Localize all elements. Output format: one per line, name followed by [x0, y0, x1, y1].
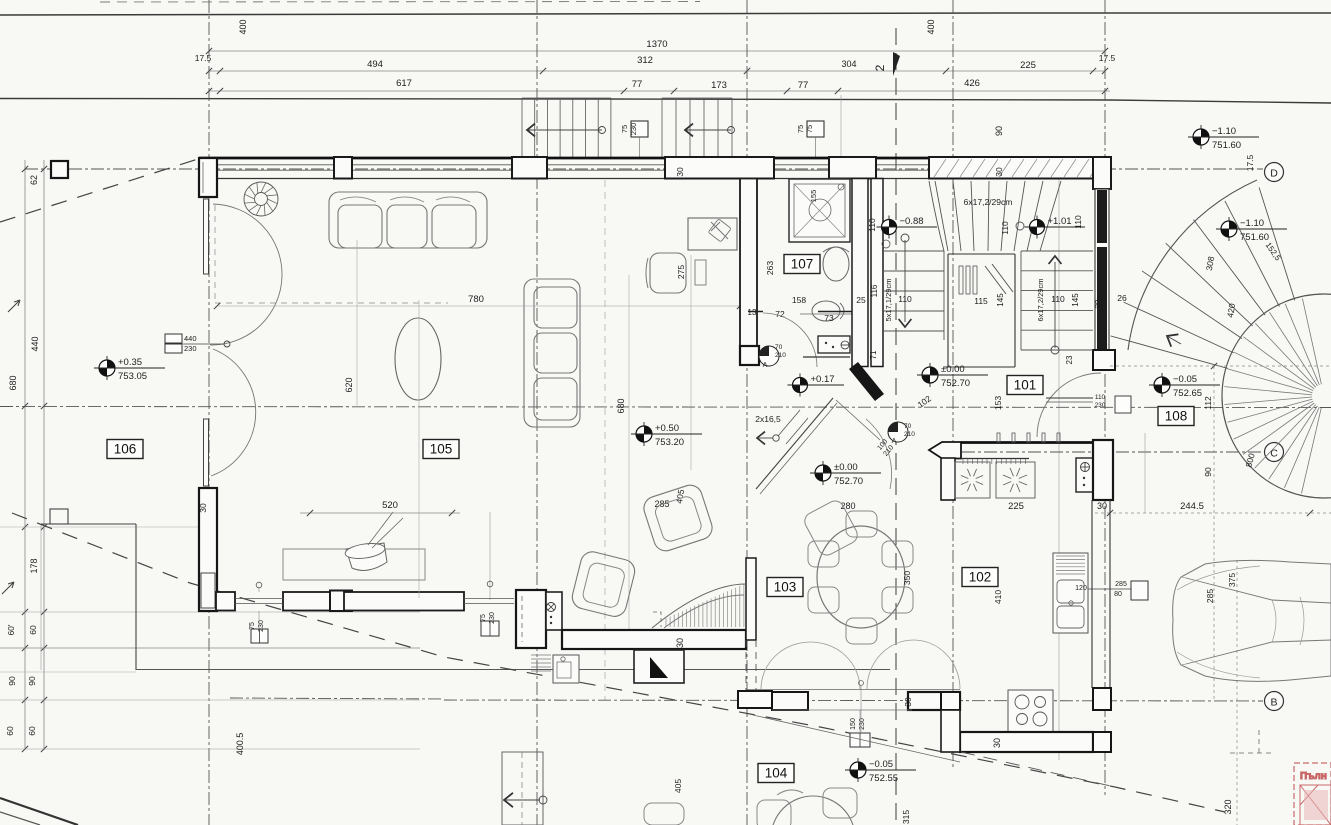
svg-text:75: 75: [480, 614, 487, 622]
dark corner strokes bottom-left: [0, 798, 78, 825]
svg-text:405: 405: [673, 779, 683, 793]
grid axis vertical x747: [746, 0, 748, 825]
spiral fan arrow: [1167, 334, 1178, 346]
svg-text:103: 103: [774, 580, 797, 595]
spiral stair big circle: [1222, 294, 1331, 498]
svg-text:30: 30: [1097, 501, 1107, 511]
svg-text:230: 230: [489, 612, 496, 624]
svg-text:752.70: 752.70: [834, 476, 863, 487]
left dim tick: [22, 697, 28, 703]
svg-text:400.5: 400.5: [235, 733, 245, 756]
bottom wall glazing b: [464, 598, 514, 600]
window 110/230 east wall: [1115, 396, 1131, 413]
top wall block 665: [665, 157, 774, 179]
svg-text:145: 145: [996, 293, 1005, 307]
svg-text:23: 23: [1065, 355, 1074, 364]
room label 107: [784, 255, 820, 274]
svg-text:210: 210: [904, 431, 915, 438]
elevation +0.17: [799, 374, 801, 397]
svg-text:−0.88: −0.88: [900, 216, 924, 227]
svg-text:90: 90: [994, 126, 1004, 136]
dim line y513 right: [1095, 512, 1331, 514]
svg-text:320: 320: [1223, 799, 1233, 814]
wall face line y710: [772, 709, 912, 711]
kitchen pass-through wall arrow end: [929, 442, 961, 459]
desk chair: [650, 253, 686, 293]
svg-text:−0.05: −0.05: [1173, 374, 1197, 385]
section cut line 2 vertical: [895, 28, 897, 825]
svg-text:30: 30: [994, 167, 1004, 177]
svg-text:440: 440: [30, 336, 40, 351]
left dim tick: [22, 645, 28, 651]
svg-text:B: B: [1270, 697, 1277, 709]
svg-text:6x17,2/29cm: 6x17,2/29cm: [1036, 279, 1045, 322]
section marker 2 flag: [893, 52, 900, 76]
svg-text:30: 30: [903, 697, 913, 707]
svg-text:304: 304: [841, 59, 856, 69]
svg-text:104: 104: [765, 766, 788, 781]
dimension line 1370: [209, 50, 1105, 52]
grid axis vertical x1105: [1104, 0, 1106, 795]
svg-text:150: 150: [850, 718, 857, 730]
svg-text:+0.35: +0.35: [118, 357, 142, 368]
svg-text:30: 30: [675, 167, 685, 177]
construction line x605: [604, 180, 606, 700]
dining south wall pillar a: [738, 691, 772, 708]
svg-text:145: 145: [1071, 293, 1080, 307]
elevation -0.88: [888, 216, 890, 239]
svg-text:112: 112: [1203, 396, 1213, 410]
svg-text:116: 116: [870, 284, 879, 297]
svg-text:73: 73: [824, 313, 834, 323]
bottom-left horizontal guide y700: [0, 699, 420, 701]
door marker circle B 70/210: [759, 346, 779, 366]
washbasin 107: [823, 247, 849, 281]
stair left flight arrow: [904, 240, 906, 322]
circle node left flight: [882, 240, 890, 248]
left dimension line x44: [43, 160, 45, 750]
french door arc right: [867, 640, 960, 689]
site boundary line top: [0, 13, 1331, 15]
svg-text:753.20: 753.20: [655, 437, 684, 448]
planter pot: [346, 543, 387, 570]
svg-text:±0.00: ±0.00: [941, 364, 965, 375]
kitchen sink small + hatch left of fireplace: [531, 654, 551, 656]
svg-text:110: 110: [1000, 221, 1010, 235]
terrace edge bottom: [136, 669, 890, 671]
svg-text:75: 75: [805, 125, 814, 133]
elevation +1.01: [1036, 216, 1038, 239]
svg-text:752.65: 752.65: [1173, 388, 1202, 399]
kitchen right wall double: [1091, 500, 1093, 688]
wall 107 bottom y312: [748, 311, 763, 313]
kitchen sink unit right wall: [1053, 553, 1088, 633]
svg-text:230: 230: [629, 123, 638, 136]
chair bottom right of 105: [802, 498, 861, 558]
svg-text:−0.05: −0.05: [869, 759, 893, 770]
chimney outline bottom: [502, 752, 543, 825]
corner pillar living room SW: [516, 590, 546, 648]
left datum column square: [51, 161, 68, 178]
svg-text:494: 494: [367, 59, 383, 70]
svg-text:178: 178: [29, 558, 39, 573]
terrace bump square: [50, 509, 68, 524]
grid axis vertical x537: [536, 0, 538, 825]
car hood lines: [1177, 566, 1260, 678]
washer square 2: [996, 462, 1035, 498]
spiral outer fan arc: [1128, 180, 1257, 350]
svg-text:+0.17: +0.17: [811, 374, 835, 385]
svg-text:Пълн: Пълн: [1300, 771, 1327, 782]
svg-text:752.55: 752.55: [869, 773, 898, 784]
svg-text:17.5: 17.5: [1245, 154, 1255, 171]
thin diagonal below dining wall: [753, 715, 960, 762]
window axis marker square A: [631, 121, 648, 137]
door swing arc lower: [211, 349, 256, 476]
site boundary dashes very top: [100, 1, 700, 4]
bottom wall segment b: [344, 592, 464, 611]
svg-text:225: 225: [1008, 501, 1024, 512]
stair landing walls: [944, 254, 1015, 367]
svg-text:263: 263: [765, 261, 775, 275]
datum line C y452: [940, 451, 1263, 453]
terrace edge top: [41, 523, 136, 525]
svg-text:275: 275: [676, 265, 686, 279]
left wall lower pillar inner: [201, 573, 215, 608]
oval coffee table: [395, 318, 441, 400]
exterior stair flight 1 treads: [521, 98, 523, 158]
svg-text:+1.01: +1.01: [1048, 216, 1072, 227]
top-right wall corner pillar: [1093, 157, 1111, 189]
small circle node: [1016, 222, 1024, 230]
dim line y366 right: [1110, 365, 1331, 367]
hall steps 2x16.5: [778, 410, 800, 436]
attic dashed outline: [214, 205, 216, 303]
svg-text:1370: 1370: [646, 39, 667, 50]
long dashed overhang diagonal: [12, 513, 1225, 812]
svg-text:77: 77: [632, 79, 643, 90]
svg-text:120: 120: [1075, 585, 1087, 592]
svg-text:C: C: [1270, 448, 1278, 460]
svg-text:115: 115: [974, 296, 988, 306]
room label 104: [758, 764, 794, 783]
svg-text:80: 80: [1114, 591, 1122, 598]
construction line x841: [840, 95, 842, 160]
svg-text:75: 75: [796, 125, 805, 133]
left dim tick: [22, 609, 28, 615]
elevation 0.00 dining: [822, 461, 824, 485]
svg-text:77: 77: [798, 80, 809, 91]
svg-text:17.5: 17.5: [1099, 53, 1116, 63]
room label 108: [1158, 407, 1194, 426]
grid axis vertical x953: [952, 0, 954, 770]
svg-text:107: 107: [791, 257, 814, 272]
elevation -0.05 room104: [857, 758, 859, 782]
dashed diagonal top-left: [0, 159, 198, 222]
dimension line 617-77-173-77-426: [209, 90, 1110, 92]
wall x740-757 vertical: [740, 179, 757, 347]
curved stair dashed step: [653, 612, 661, 627]
svg-text:108: 108: [1165, 409, 1188, 424]
left wall lower pillar: [199, 488, 217, 611]
dim 73: [800, 313, 852, 315]
french door arc left: [761, 642, 860, 689]
svg-text:2x16,5: 2x16,5: [755, 414, 781, 424]
stairwell east wall band: [1095, 189, 1109, 367]
tiny north arrow lower-left edge: [2, 582, 14, 594]
vertical dim line x1237: [1236, 560, 1238, 825]
datum line D y169: [25, 168, 1263, 170]
svg-text:751.60: 751.60: [1240, 232, 1269, 243]
svg-text:A: A: [763, 362, 768, 369]
window axis sq 75/230 b: [481, 621, 499, 636]
door arc stair to hall: [1037, 373, 1101, 437]
top wall outer edge: [199, 157, 1110, 160]
stair right flight arrow: [1054, 262, 1056, 348]
grid bubble C: [1265, 443, 1284, 462]
door swing arc upper: [210, 204, 282, 345]
svg-text:−1.10: −1.10: [1212, 126, 1236, 137]
svg-text:400: 400: [926, 19, 936, 34]
cabinet in WC: [818, 336, 850, 353]
counter tick hatch: [963, 459, 1025, 464]
kitchen corner vertical leg: [941, 710, 960, 752]
dimension 780: [208, 593, 210, 595]
svg-text:350: 350: [902, 571, 912, 585]
sofa vertical 3-seat: [524, 279, 580, 427]
axis line to 0 marker: [183, 343, 224, 345]
svg-text:153: 153: [993, 396, 1003, 410]
kitchen counter wall top: [961, 441, 1095, 444]
svg-text:285: 285: [1115, 581, 1127, 588]
black chamfer wall corner: [849, 362, 884, 401]
sofa horizontal 3-seat: [329, 192, 487, 248]
dimension line 494-312-304-225: [209, 70, 1105, 72]
svg-text:±0.00: ±0.00: [834, 462, 858, 473]
svg-text:60: 60: [28, 625, 38, 635]
kitchen corner pillar b: [1093, 688, 1111, 710]
svg-text:520: 520: [382, 500, 398, 511]
datum line B left part: [230, 698, 444, 699]
left dimension line x25: [24, 160, 26, 750]
interior stair left flight: [883, 251, 944, 340]
tiny north arrow upper-left edge: [8, 300, 20, 312]
svg-text:110: 110: [867, 218, 877, 232]
tall cabinet at fireplace wall: [546, 592, 562, 630]
svg-text:30: 30: [992, 738, 1002, 748]
hall step arrow: [757, 432, 765, 445]
terrace edge right: [135, 524, 137, 670]
sideboard bottom wall: [283, 549, 425, 580]
svg-text:315: 315: [901, 810, 911, 824]
svg-text:90: 90: [1203, 467, 1213, 477]
svg-text:60': 60': [6, 624, 16, 635]
svg-text:2: 2: [873, 64, 887, 71]
left wall top pillar: [199, 158, 217, 197]
left dim tick: [22, 746, 28, 752]
kitchen left wall segment: [941, 458, 955, 500]
stair window black bar 1: [1097, 190, 1107, 243]
landing ramp bars: [959, 266, 963, 294]
svg-text:312: 312: [637, 55, 653, 66]
svg-text:106: 106: [114, 442, 137, 457]
arrow bottom left: [504, 793, 513, 807]
WC door arc: [763, 313, 817, 367]
svg-text:440: 440: [184, 334, 197, 343]
car roof lines: [1272, 597, 1304, 645]
exterior stair flight 1 arrow: [527, 129, 602, 131]
shower tray: [789, 179, 850, 242]
door leaf lower: [204, 419, 209, 486]
svg-text:60: 60: [27, 726, 37, 736]
stairwell east corner pillar mid: [1093, 350, 1115, 370]
svg-text:155: 155: [809, 190, 818, 203]
chairs 104: [757, 800, 791, 825]
desk lamp: [711, 222, 728, 239]
top wall block 512: [512, 157, 547, 179]
svg-text:230: 230: [1095, 402, 1106, 409]
exterior stair flight1 top edge: [522, 97, 611, 99]
svg-text:173: 173: [711, 80, 727, 91]
construction line x419: [418, 300, 420, 598]
window axis sq 75/230 a: [251, 629, 268, 643]
chair far left 104: [644, 803, 684, 825]
svg-text:225: 225: [1020, 60, 1036, 71]
top wall glazing lines: [217, 164, 334, 166]
top wall block 334: [334, 157, 352, 179]
leader 285/80: [1088, 588, 1131, 590]
grid bubble D: [1265, 163, 1284, 182]
grid axis vertical x209: [208, 0, 210, 825]
svg-text:−1.10: −1.10: [1240, 218, 1264, 229]
fan plant symbol: [244, 182, 278, 216]
svg-text:617: 617: [396, 78, 412, 89]
faint vertical x1145: [1144, 433, 1146, 513]
door marker circle A: [888, 422, 908, 442]
fireplace wall horizontal: [562, 630, 746, 649]
bottom wall segment a2: [283, 592, 344, 611]
elevation -1.10 a: [1200, 125, 1202, 149]
svg-text:410: 410: [993, 590, 1003, 604]
kitchen bottom wall: [960, 732, 1093, 752]
window marker 150/230: [850, 733, 870, 747]
construction line x691: [690, 255, 692, 470]
svg-text:70: 70: [775, 344, 783, 351]
construction line x357: [356, 240, 358, 407]
datum line B y701: [444, 700, 1263, 701]
washer square 1: [955, 462, 990, 498]
door arc hall to dining: [866, 419, 892, 489]
svg-text:400: 400: [238, 19, 248, 34]
svg-text:30: 30: [198, 503, 208, 513]
bottom-left horizontal guide y672: [0, 671, 136, 673]
svg-text:A: A: [892, 438, 897, 445]
room label 106: [107, 440, 143, 459]
exterior stair flight2 top edge: [662, 97, 732, 99]
elevation marker +0.50: [643, 422, 645, 446]
red stamp bottom right: [1294, 763, 1331, 825]
svg-text:60: 60: [5, 726, 15, 736]
room label 103: [767, 578, 803, 597]
svg-text:230: 230: [184, 344, 197, 353]
construction line x629: [628, 275, 630, 630]
svg-text:753.05: 753.05: [118, 371, 147, 382]
svg-text:71: 71: [869, 350, 878, 359]
svg-text:285: 285: [1205, 589, 1215, 603]
svg-text:680: 680: [616, 398, 626, 413]
stairwell east wall upper pillar: [1093, 188, 1111, 190]
stairwell west wall: [871, 179, 883, 367]
dashed cross x1259: [1258, 730, 1260, 757]
site property line y99: [0, 99, 1331, 104]
svg-text:30: 30: [675, 638, 685, 648]
svg-text:110: 110: [1051, 294, 1065, 304]
kitchen bottom-left corner wall: [908, 692, 960, 710]
construction line x1059: [1058, 160, 1060, 760]
top wall block 829: [829, 157, 876, 179]
svg-text:680: 680: [8, 375, 18, 390]
spiral stair inner spokes: [1224, 298, 1321, 493]
svg-text:25: 25: [856, 295, 866, 305]
elevation -1.10 b: [1228, 217, 1230, 241]
svg-text:105: 105: [430, 442, 453, 457]
left dim tick: [22, 166, 28, 172]
svg-text:101: 101: [1014, 378, 1037, 393]
armchair near fireplace: [570, 549, 637, 619]
armchair lower center: [641, 482, 715, 554]
svg-text:375: 375: [1227, 573, 1237, 587]
construction line x490: [489, 512, 491, 600]
room label 105: [423, 440, 459, 459]
stair winder fan: [929, 181, 1061, 251]
svg-text:75: 75: [620, 125, 629, 133]
vertical dim line x1214: [1213, 366, 1215, 700]
interior stair right flight: [1021, 251, 1093, 350]
bottom wall segment a: [216, 592, 235, 611]
curved stair living-dining hatch: [666, 584, 744, 627]
svg-text:426: 426: [964, 78, 980, 89]
svg-text:780: 780: [468, 294, 484, 305]
stairwell top wall block 929-1105 with hatch: [929, 157, 1105, 179]
elevation marker +0.35: [106, 356, 108, 380]
WC east wall: [852, 179, 868, 367]
left dim tick: [22, 403, 28, 409]
round table 104: [771, 796, 855, 825]
svg-text:75: 75: [249, 622, 256, 630]
hall diagonal inner line: [836, 400, 880, 440]
wall face line y689: [746, 689, 960, 691]
bottom-left horizontal guide y612: [0, 611, 420, 613]
diagonal hall wall double: [756, 398, 833, 489]
desk: [688, 218, 737, 250]
svg-text:244.5: 244.5: [1180, 501, 1204, 512]
svg-text:13: 13: [748, 308, 757, 317]
bottom wall white block 30: [330, 591, 352, 612]
dining chairs: [808, 541, 839, 567]
spiral fan steps: [1111, 188, 1295, 369]
car windshield lines: [1186, 578, 1331, 664]
kitchen corner pillar a: [941, 692, 960, 710]
exterior stair flight 2 arrow: [685, 129, 731, 131]
svg-text:+0.50: +0.50: [655, 423, 679, 434]
room label 102: [962, 568, 998, 587]
door axis 0 marker: [859, 681, 864, 686]
svg-text:102: 102: [969, 570, 992, 585]
dashed diagonal below kitchen: [961, 752, 1115, 787]
elevation 0.00 hall: [929, 363, 931, 387]
svg-text:D: D: [1270, 168, 1278, 180]
planter leader lines: [368, 512, 403, 548]
